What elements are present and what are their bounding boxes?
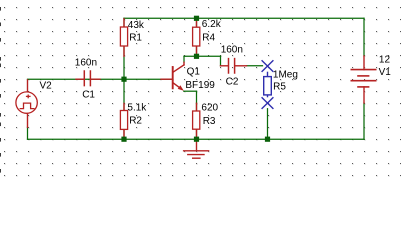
svg-text:5.1k: 5.1k	[127, 103, 147, 114]
svg-text:C2: C2	[226, 77, 239, 88]
svg-text:6.2k: 6.2k	[202, 19, 222, 30]
svg-text:V2: V2	[40, 81, 53, 92]
svg-text:160n: 160n	[75, 58, 97, 69]
svg-text:R3: R3	[203, 116, 216, 127]
svg-text:43k: 43k	[128, 20, 145, 31]
svg-text:160n: 160n	[221, 45, 243, 56]
svg-text:R2: R2	[129, 116, 142, 127]
svg-text:12: 12	[379, 54, 391, 65]
svg-text:C1: C1	[82, 90, 95, 101]
svg-text:R5: R5	[273, 81, 286, 92]
svg-text:620: 620	[201, 102, 218, 113]
svg-text:Q1: Q1	[187, 67, 201, 78]
svg-text:V1: V1	[379, 67, 392, 78]
svg-text:1Meg: 1Meg	[273, 69, 298, 80]
svg-text:BF199: BF199	[185, 80, 215, 91]
svg-text:R1: R1	[129, 32, 142, 43]
svg-text:R4: R4	[202, 32, 215, 43]
